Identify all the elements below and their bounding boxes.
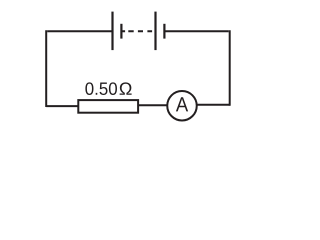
battery B1 cell plates bbox=[113, 12, 165, 51]
resistor R (0.50 ohm) box bbox=[78, 100, 138, 113]
battery dashed link bbox=[121, 30, 152, 32]
wire right rail (top-right corner to bottom-right corner) bbox=[229, 30, 231, 105]
battery short plate 1 bbox=[120, 24, 122, 39]
battery short plate 2 bbox=[163, 24, 165, 39]
wire left rail (top-left corner to bottom-left corner) bbox=[45, 30, 47, 107]
ammeter letter A bbox=[176, 97, 188, 111]
label 0.50 ohm bbox=[85, 82, 131, 95]
wire bottom rail right (ammeter to bottom-right corner) bbox=[197, 104, 230, 106]
battery long plate 1 bbox=[111, 12, 113, 51]
wire resistor to ammeter bbox=[139, 104, 168, 106]
wire top rail right (battery negative plate to top-right corner) bbox=[164, 30, 228, 32]
ammeter A circle bbox=[167, 91, 197, 121]
wire bottom rail left (bottom-left corner to resistor) bbox=[46, 105, 77, 107]
wire top rail left (battery positive plate to top-left corner) bbox=[47, 30, 112, 32]
battery long plate 2 bbox=[154, 12, 156, 51]
